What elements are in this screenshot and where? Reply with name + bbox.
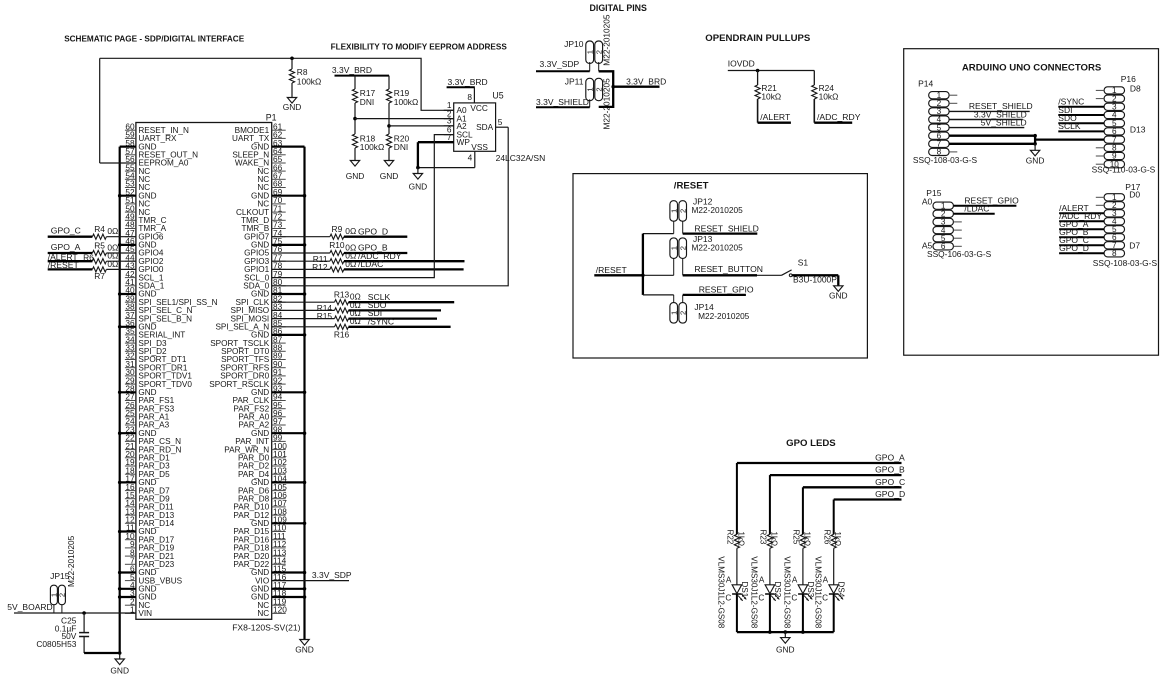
svg-text:3.3V_SHIELD: 3.3V_SHIELD — [536, 97, 589, 107]
svg-text:DS2: DS2 — [773, 582, 782, 598]
svg-text:C0805H53: C0805H53 — [36, 639, 76, 649]
svg-text:1kΩ: 1kΩ — [769, 532, 778, 547]
svg-text:/LDAC: /LDAC — [358, 259, 383, 269]
svg-text:VLMS30J1L2-GS08: VLMS30J1L2-GS08 — [750, 556, 759, 628]
svg-text:DS4: DS4 — [837, 582, 846, 598]
svg-text:0Ω: 0Ω — [345, 259, 356, 269]
svg-text:P14: P14 — [918, 78, 933, 88]
svg-text:1: 1 — [669, 209, 678, 213]
svg-text:RESET_SHIELD: RESET_SHIELD — [694, 223, 758, 233]
svg-text:GND: GND — [829, 291, 848, 301]
svg-text:2: 2 — [678, 209, 687, 213]
svg-text:DIGITAL PINS: DIGITAL PINS — [590, 3, 647, 13]
svg-text:P16: P16 — [1121, 74, 1136, 84]
svg-text:5: 5 — [498, 117, 503, 127]
svg-text:R7: R7 — [94, 271, 105, 281]
svg-text:GPO_D: GPO_D — [1059, 243, 1089, 253]
svg-text:/RESET: /RESET — [596, 265, 628, 275]
svg-text:10kΩ: 10kΩ — [761, 92, 781, 102]
svg-text:A0: A0 — [922, 197, 933, 207]
svg-text:24LC32A/SN: 24LC32A/SN — [496, 153, 546, 163]
svg-text:GPO_D: GPO_D — [358, 226, 388, 236]
svg-text:R10: R10 — [329, 240, 345, 250]
svg-text:A: A — [823, 575, 829, 584]
svg-text:M22-2010205: M22-2010205 — [66, 535, 76, 587]
svg-text:GND: GND — [295, 645, 314, 655]
svg-text:GPO_C: GPO_C — [875, 477, 905, 487]
svg-text:WP: WP — [457, 137, 471, 147]
svg-text:GND: GND — [346, 171, 365, 181]
svg-text:DNI: DNI — [360, 97, 374, 107]
svg-text:GPO_A: GPO_A — [51, 242, 81, 252]
svg-text:4: 4 — [468, 153, 473, 163]
svg-text:GPO_C: GPO_C — [51, 226, 81, 236]
svg-text:5V_BOARD: 5V_BOARD — [7, 602, 52, 612]
svg-text:GND: GND — [776, 644, 795, 654]
svg-text:GPO LEDS: GPO LEDS — [786, 438, 836, 449]
svg-text:A: A — [726, 575, 732, 584]
svg-text:R4: R4 — [94, 224, 105, 234]
svg-text:R8: R8 — [297, 67, 308, 77]
svg-text:1: 1 — [669, 311, 678, 315]
svg-text:R23: R23 — [759, 530, 768, 545]
svg-text:3.3V_BRD: 3.3V_BRD — [448, 77, 488, 87]
svg-text:R15: R15 — [317, 311, 333, 321]
svg-text:DNI: DNI — [394, 142, 408, 152]
svg-text:R5: R5 — [94, 240, 105, 250]
svg-text:7: 7 — [447, 132, 452, 142]
svg-text:M22-2010205: M22-2010205 — [692, 205, 744, 215]
svg-text:0Ω: 0Ω — [107, 259, 118, 269]
svg-text:S1: S1 — [798, 258, 809, 268]
svg-text:1kΩ: 1kΩ — [833, 532, 842, 547]
svg-text:100kΩ: 100kΩ — [360, 142, 384, 152]
svg-text:2: 2 — [678, 311, 687, 315]
svg-text:SSQ-106-03-G-S: SSQ-106-03-G-S — [927, 249, 992, 259]
svg-text:2: 2 — [678, 246, 687, 250]
svg-text:M22-2010205: M22-2010205 — [698, 311, 750, 321]
svg-text:A: A — [759, 575, 765, 584]
svg-text:2: 2 — [58, 593, 67, 597]
svg-text:GND: GND — [380, 171, 399, 181]
svg-text:VLMS30J1L2-GS08: VLMS30J1L2-GS08 — [813, 556, 822, 628]
svg-text:M22-2010205: M22-2010205 — [601, 14, 611, 66]
svg-text:D13: D13 — [1130, 125, 1146, 135]
svg-text:/ADC_RDY: /ADC_RDY — [817, 112, 861, 122]
svg-text:RESET_GPIO: RESET_GPIO — [699, 285, 754, 295]
svg-text:GPO_B: GPO_B — [875, 465, 905, 475]
svg-text:GND: GND — [1026, 156, 1045, 166]
svg-text:R16: R16 — [334, 329, 350, 339]
svg-text:/ALERT: /ALERT — [760, 112, 791, 122]
svg-text:IOVDD: IOVDD — [728, 59, 755, 69]
svg-text:R6: R6 — [83, 252, 94, 262]
svg-text:3.3V_SDP: 3.3V_SDP — [540, 59, 580, 69]
svg-text:/LDAC: /LDAC — [964, 204, 989, 214]
svg-text:D0: D0 — [1129, 190, 1140, 200]
svg-text:GND: GND — [409, 182, 428, 192]
svg-text:VSS: VSS — [471, 142, 488, 152]
svg-text:100kΩ: 100kΩ — [297, 77, 321, 87]
svg-text:DS1: DS1 — [740, 582, 749, 598]
svg-text:SCLK: SCLK — [1058, 121, 1081, 131]
svg-text:10kΩ: 10kΩ — [819, 92, 839, 102]
svg-text:8: 8 — [1112, 249, 1117, 258]
svg-text:FX8-120S-SV(21): FX8-120S-SV(21) — [232, 623, 300, 633]
svg-text:U5: U5 — [492, 91, 503, 101]
svg-text:SCHEMATIC PAGE - SDP/DIGITAL I: SCHEMATIC PAGE - SDP/DIGITAL INTERFACE — [64, 35, 245, 44]
svg-text:M22-2010205: M22-2010205 — [601, 78, 611, 130]
svg-text:GPO_D: GPO_D — [875, 489, 905, 499]
svg-text:SDA: SDA — [476, 122, 494, 132]
svg-text:ARDUINO UNO CONNECTORS: ARDUINO UNO CONNECTORS — [962, 63, 1102, 74]
svg-text:R22: R22 — [726, 530, 735, 545]
svg-text:3.3V_SDP: 3.3V_SDP — [312, 570, 352, 580]
svg-text:R13: R13 — [334, 289, 350, 299]
svg-text:0Ω: 0Ω — [345, 226, 356, 236]
svg-text:SSQ-108-03-G-S: SSQ-108-03-G-S — [913, 155, 978, 165]
svg-text:JP11: JP11 — [565, 76, 584, 86]
svg-text:SSQ-110-03-G-S: SSQ-110-03-G-S — [1092, 165, 1156, 175]
svg-text:0Ω: 0Ω — [350, 316, 361, 326]
svg-text:D7: D7 — [1129, 240, 1140, 250]
svg-text:3.3V_BRD: 3.3V_BRD — [626, 76, 666, 86]
svg-text:SSQ-108-03-G-S: SSQ-108-03-G-S — [1093, 258, 1158, 268]
svg-text:0Ω: 0Ω — [107, 226, 118, 236]
svg-text:R12: R12 — [312, 262, 328, 272]
svg-text:GND: GND — [110, 666, 129, 676]
svg-text:JP10: JP10 — [564, 39, 584, 49]
svg-text:D8: D8 — [1130, 83, 1141, 93]
svg-text:/SYNC: /SYNC — [368, 316, 394, 326]
svg-text:R25: R25 — [792, 530, 801, 545]
svg-text:/RESET: /RESET — [48, 260, 80, 270]
svg-text:1: 1 — [669, 246, 678, 250]
svg-text:8: 8 — [467, 92, 472, 102]
svg-text:1kΩ: 1kΩ — [736, 532, 745, 547]
svg-text:1: 1 — [585, 50, 594, 54]
svg-text:3.3V_BRD: 3.3V_BRD — [332, 65, 372, 75]
svg-text:1: 1 — [585, 87, 594, 91]
svg-text:VCC: VCC — [470, 103, 488, 113]
svg-text:VLMS30J1L2-GS08: VLMS30J1L2-GS08 — [717, 556, 726, 628]
svg-text:5V_SHIELD: 5V_SHIELD — [981, 117, 1027, 127]
svg-text:GND: GND — [283, 102, 302, 112]
svg-text:A: A — [792, 575, 798, 584]
svg-text:NC: NC — [257, 609, 269, 618]
svg-text:R26: R26 — [822, 530, 831, 545]
svg-text:B3U-1000P: B3U-1000P — [793, 274, 837, 284]
svg-text:100kΩ: 100kΩ — [394, 97, 418, 107]
svg-text:R9: R9 — [332, 224, 343, 234]
svg-text:M22-2010205: M22-2010205 — [692, 242, 744, 252]
svg-text:1kΩ: 1kΩ — [802, 532, 811, 547]
svg-text:FLEXIBILITY TO MODIFY EEPROM A: FLEXIBILITY TO MODIFY EEPROM ADDRESS — [331, 42, 508, 51]
svg-text:120: 120 — [273, 605, 287, 615]
svg-text:/RESET: /RESET — [674, 180, 709, 191]
svg-text:VLMS30J1L2-GS08: VLMS30J1L2-GS08 — [783, 556, 792, 628]
svg-text:OPENDRAIN PULLUPS: OPENDRAIN PULLUPS — [705, 33, 811, 44]
svg-text:RESET_BUTTON: RESET_BUTTON — [694, 264, 763, 274]
svg-text:VIN: VIN — [138, 609, 152, 618]
svg-text:GPO_A: GPO_A — [875, 453, 905, 463]
